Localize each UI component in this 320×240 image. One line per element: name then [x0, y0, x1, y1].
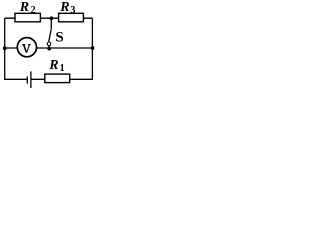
node junction dot left (voltmeter branch) [3, 46, 7, 50]
svg-text:2: 2 [31, 5, 36, 16]
switch S blade [49, 30, 51, 42]
battery cell: short negative plate [26, 76, 28, 83]
battery cell: long positive plate [30, 71, 32, 88]
node junction dot switch bottom [47, 47, 51, 51]
resistor R1 [45, 74, 70, 83]
wire middle (voltmeter branch) [5, 47, 93, 49]
node junction dot right (voltmeter branch) [91, 46, 95, 50]
wire bottom right of battery [31, 78, 93, 80]
svg-text:S: S [55, 30, 63, 46]
wire bottom left of battery [4, 78, 27, 80]
svg-text:1: 1 [60, 63, 65, 74]
voltmeter V circle [17, 38, 36, 57]
wire right [91, 18, 93, 79]
wire top [5, 17, 93, 19]
resistor R2 [15, 13, 40, 21]
switch S stub to middle wire [48, 46, 50, 49]
wire left [4, 18, 6, 79]
svg-text:3: 3 [70, 5, 75, 16]
switch S stub from top junction [50, 18, 52, 30]
svg-text:R: R [59, 0, 69, 15]
voltmeter letter V [22, 45, 30, 53]
background [0, 0, 97, 89]
resistor R3 [59, 13, 84, 21]
switch S pivot circle [47, 42, 51, 46]
node junction dot top (between R2 and R3) [50, 16, 54, 20]
svg-text:R: R [48, 58, 58, 73]
svg-text:R: R [19, 0, 29, 15]
